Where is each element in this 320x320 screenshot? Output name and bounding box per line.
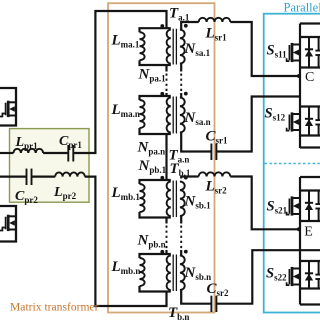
- svg-text:Npa.1: Npa.1: [138, 67, 167, 84]
- wire: L_pr1 to C_pr1: [43, 152, 68, 154]
- capacitor: parallel cap of S_s22: [315, 261, 320, 289]
- transformer T_b.n: [140, 250, 188, 292]
- wire: C_pr2 to L_pr2: [32, 176, 56, 178]
- wire: S_s21 outer top rail: [300, 176, 320, 178]
- wire: L_sr2 down to node E row: [230, 177, 300, 230]
- inductor L_sr2: [199, 172, 231, 176]
- wire: T_a.1 secondary top to L_sr1: [181, 22, 199, 30]
- svg-text:Csr2: Csr2: [207, 281, 230, 298]
- wire: S_s11 outer top rail: [300, 22, 320, 24]
- diode: body diode of S_s22: [305, 261, 313, 289]
- node E junction dot: [297, 227, 301, 231]
- wire: T_b.1 secondary top to L_sr2: [181, 177, 199, 179]
- wire: S_s21 unit bottom rail: [300, 220, 320, 222]
- transistor S_s21 (sync rectifier mosfet): [287, 196, 300, 215]
- svg-text:Lmb.1: Lmb.1: [111, 185, 141, 202]
- cyan box: parallel rectifier region: [264, 14, 320, 313]
- svg-text:Ss11: Ss11: [267, 43, 288, 60]
- diode: body diode of S_s12: [305, 107, 313, 136]
- wire: rectifier bus vertical (upper, through S_s11/S_s12): [299, 24, 301, 149]
- svg-text:Lsr2: Lsr2: [205, 179, 228, 196]
- wire: L_sr1 down to node C: [230, 22, 299, 76]
- wire: T_b.n secondary bottom to C_sr2: [181, 290, 211, 304]
- capacitor C_sr2: [210, 296, 212, 312]
- wire: secondary chain T_a.1 to T_a.n (with dashed continuation): [180, 64, 182, 72]
- wire: S_s11 unit top rail: [300, 36, 320, 38]
- transistor S_s22 (sync rectifier mosfet): [287, 267, 300, 286]
- svg-text:Lma.n: Lma.n: [111, 102, 140, 119]
- svg-text:E: E: [304, 224, 313, 239]
- wire: S_s11 unit bottom rail: [300, 66, 320, 68]
- green box: primary resonant tank: [10, 129, 90, 203]
- svg-text:Nsb.1: Nsb.1: [184, 194, 212, 211]
- capacitor: parallel cap of S_s21: [315, 191, 320, 222]
- wire: C_sr1 up and right to S_s12 side: [216, 97, 299, 152]
- wire: primary chain T_b.1 to T_b.n (with dashed continuation): [165, 218, 167, 224]
- svg-text:Nsa.n: Nsa.n: [184, 110, 211, 127]
- svg-text:Tb.n: Tb.n: [168, 305, 189, 320]
- svg-text:Ss22: Ss22: [266, 266, 287, 283]
- orange box: matrix transformer region: [108, 3, 215, 312]
- inductor L_sr1: [199, 18, 231, 22]
- transformer T_a.1: [140, 24, 188, 65]
- svg-text:Ta.1: Ta.1: [169, 6, 190, 23]
- svg-text:Ss12: Ss12: [265, 106, 286, 123]
- inductor L_pr2: [55, 172, 85, 176]
- svg-text:Matrix transformer: Matrix transformer: [10, 301, 99, 314]
- wire: C_pr1 right then up across top to primary input: [73, 11, 166, 153]
- capacitor C_pr2: [26, 169, 28, 185]
- cyan dashed separator line: [265, 163, 320, 165]
- svg-text:C: C: [305, 70, 314, 85]
- capacitor: parallel cap of S_s12: [315, 107, 320, 136]
- wire: primary chain T_a.1 to T_a.n (with dashed continuation): [165, 65, 167, 72]
- wire: C_sr2 up and right to S_s22 top rail: [216, 250, 320, 304]
- inductor L_pr1: [14, 149, 44, 153]
- transistor S_s11 (sync rectifier mosfet): [287, 43, 300, 62]
- wire: rectifier bus vertical (lower, through S_s21/S_s22): [299, 177, 301, 305]
- wire: S_s22 unit top rail: [300, 260, 320, 262]
- wire: S_s12 outer bottom rail: [300, 146, 320, 148]
- capacitor C_pr1: [67, 145, 69, 162]
- svg-text:Lsr1: Lsr1: [205, 26, 228, 43]
- wire: S_s21 unit top rail: [300, 189, 320, 191]
- diode: body diode of S_s21: [305, 191, 313, 222]
- diode: body diode of S_s11: [305, 37, 313, 68]
- capacitor: parallel cap of S_s11: [315, 37, 320, 68]
- svg-text:Nsb.n: Nsb.n: [184, 265, 212, 282]
- wire: S_s12 unit bottom rail: [300, 134, 320, 136]
- svg-text:Nsa.1: Nsa.1: [184, 41, 211, 58]
- transistor S_s12 (sync rectifier mosfet): [287, 112, 300, 131]
- wire: primary chain T_a.n to T_b.1: [165, 134, 167, 180]
- wire: return to C_pr2: [0, 176, 27, 178]
- svg-text:Npa.n: Npa.n: [137, 140, 166, 157]
- wire: S_s22 unit bottom rail: [300, 287, 320, 289]
- wire: S_s22 outer bottom rail: [300, 303, 320, 305]
- transistor Q2 (primary mosfet, cut off at left edge): [0, 206, 16, 242]
- wire: secondary chain T_b.1 to T_b.n (with dashed continuation): [180, 216, 182, 224]
- svg-text:Parallel: Parallel: [284, 1, 320, 15]
- svg-text:Npb.1: Npb.1: [138, 158, 167, 175]
- transformer T_b.1: [140, 176, 188, 218]
- svg-text:Npb.n: Npb.n: [137, 233, 166, 250]
- wire: switch node to L_pr1: [0, 152, 14, 154]
- svg-text:Ss21: Ss21: [267, 199, 288, 216]
- svg-text:Csr1: Csr1: [206, 129, 229, 146]
- node C junction dot: [297, 74, 301, 78]
- wire: S_s12 unit top rail: [300, 105, 320, 107]
- svg-text:Lma.1: Lma.1: [111, 33, 140, 50]
- transformer T_a.n: [140, 92, 188, 134]
- svg-text:Lmb.n: Lmb.n: [111, 259, 141, 276]
- capacitor C_sr1: [210, 144, 212, 161]
- wire: T_a.n secondary bottom to C_sr1: [181, 133, 211, 152]
- transistor Q1 (primary mosfet, cut off at left edge): [0, 88, 16, 126]
- wire: L_pr2 right, down and along bottom to primary chain: [85, 177, 167, 306]
